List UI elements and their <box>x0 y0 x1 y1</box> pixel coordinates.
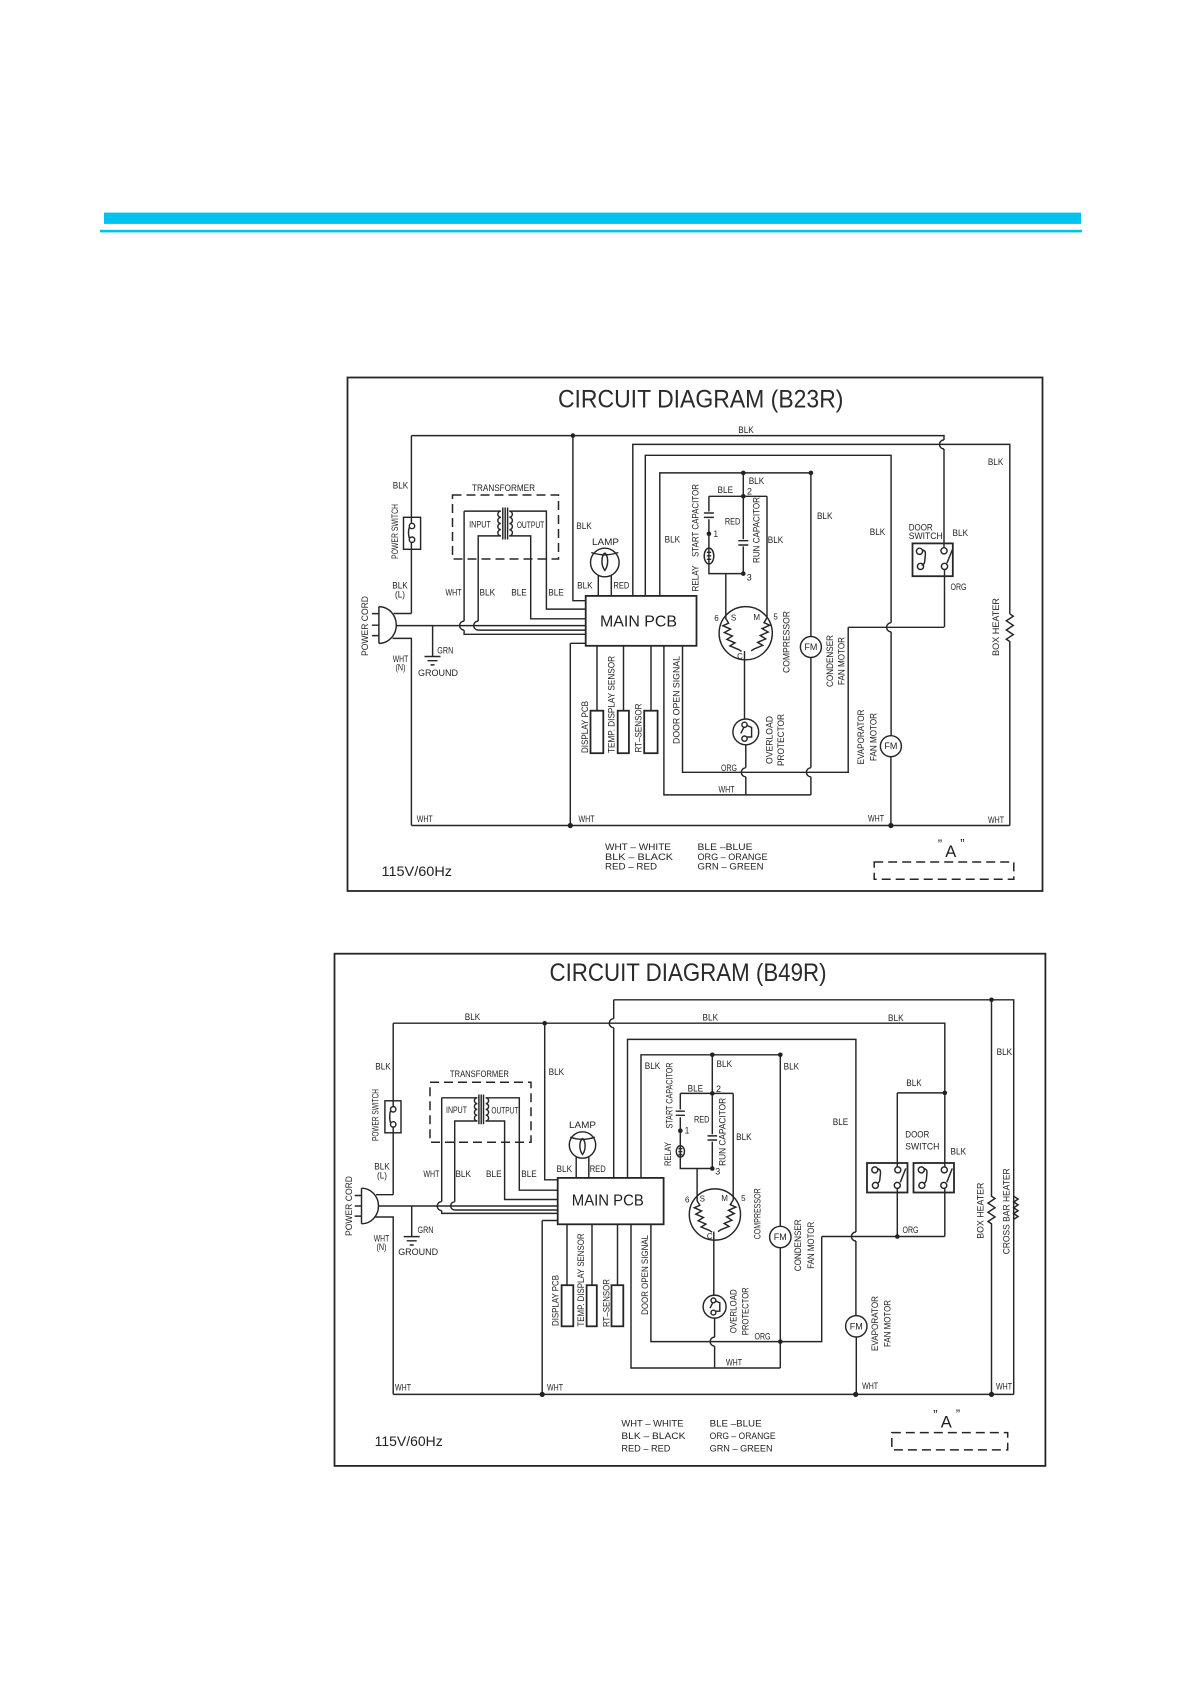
svg-text:BLK: BLK <box>906 1078 922 1089</box>
svg-text:BLK: BLK <box>703 1013 719 1024</box>
svg-text:WHT: WHT <box>547 1383 563 1394</box>
svg-text:FM: FM <box>804 642 817 652</box>
svg-text:WHT: WHT <box>719 784 735 795</box>
svg-text:ORG: ORG <box>951 582 967 593</box>
svg-text:POWER SWITCH: POWER SWITCH <box>371 1089 382 1141</box>
svg-text:115V/60Hz: 115V/60Hz <box>375 1434 443 1449</box>
svg-text:COMPRESSOR: COMPRESSOR <box>753 1188 764 1239</box>
svg-text:RT–SENSOR: RT–SENSOR <box>602 1279 613 1327</box>
svg-text:COMPRESSOR: COMPRESSOR <box>782 611 793 673</box>
svg-text:6: 6 <box>714 614 719 623</box>
svg-text:GRN – GREEN: GRN – GREEN <box>710 1444 773 1455</box>
svg-text:BLK: BLK <box>480 588 496 599</box>
svg-text:FAN MOTOR: FAN MOTOR <box>837 637 848 685</box>
svg-text:BLK: BLK <box>465 1012 481 1023</box>
svg-text:EVAPORATOR: EVAPORATOR <box>856 709 867 764</box>
svg-text:(L): (L) <box>377 1171 387 1182</box>
svg-text:RED: RED <box>590 1164 606 1175</box>
svg-text:”: ” <box>956 1407 960 1422</box>
svg-text:BLE: BLE <box>486 1169 502 1180</box>
svg-text:BOX HEATER: BOX HEATER <box>991 598 1002 656</box>
svg-text:BLK: BLK <box>557 1164 573 1175</box>
svg-text:”: ” <box>933 1407 937 1422</box>
svg-text:(N): (N) <box>377 1242 387 1253</box>
svg-text:CROSS BAR HEATER: CROSS BAR HEATER <box>1002 1168 1013 1254</box>
svg-text:WHT: WHT <box>395 1383 411 1394</box>
svg-text:BLK: BLK <box>997 1047 1013 1058</box>
svg-text:3: 3 <box>747 573 752 584</box>
svg-text:RELAY: RELAY <box>690 565 701 592</box>
svg-text:INPUT: INPUT <box>469 520 491 530</box>
svg-text:BLK: BLK <box>953 528 969 539</box>
svg-text:GRN: GRN <box>418 1225 434 1236</box>
svg-text:BLK: BLK <box>888 1013 904 1024</box>
svg-text:BLK: BLK <box>393 481 409 492</box>
svg-text:BOX HEATER: BOX HEATER <box>975 1183 986 1239</box>
svg-text:”: ” <box>960 836 964 851</box>
svg-text:MAIN PCB: MAIN PCB <box>572 1192 644 1209</box>
svg-text:PROTECTOR: PROTECTOR <box>776 714 787 766</box>
svg-text:ORG – ORANGE: ORG – ORANGE <box>710 1431 776 1442</box>
svg-text:A: A <box>941 1414 952 1432</box>
svg-text:START CAPACITOR: START CAPACITOR <box>665 1062 676 1128</box>
svg-text:WHT: WHT <box>726 1357 742 1368</box>
svg-text:FAN MOTOR: FAN MOTOR <box>806 1222 817 1269</box>
svg-text:2: 2 <box>716 1084 721 1095</box>
svg-text:CIRCUIT DIAGRAM (B49R): CIRCUIT DIAGRAM (B49R) <box>550 959 827 987</box>
svg-text:OUTPUT: OUTPUT <box>491 1106 518 1116</box>
svg-text:SWITCH: SWITCH <box>905 1142 939 1153</box>
svg-text:1: 1 <box>714 529 719 540</box>
svg-text:BLK – BLACK: BLK – BLACK <box>621 1431 686 1442</box>
svg-text:TRANSFORMER: TRANSFORMER <box>472 483 535 494</box>
svg-text:EVAPORATOR: EVAPORATOR <box>870 1296 881 1351</box>
svg-text:BLK: BLK <box>549 1067 565 1078</box>
svg-text:M: M <box>721 1194 728 1203</box>
svg-text:RED – RED: RED – RED <box>621 1444 670 1455</box>
svg-text:BLE: BLE <box>833 1117 849 1128</box>
svg-text:RED: RED <box>613 580 629 591</box>
svg-text:OVERLOAD: OVERLOAD <box>729 1289 740 1333</box>
svg-text:FAN MOTOR: FAN MOTOR <box>869 713 880 761</box>
svg-text:(L): (L) <box>395 590 405 601</box>
svg-text:5: 5 <box>773 613 778 622</box>
svg-text:BLK: BLK <box>738 425 754 436</box>
svg-text:BLK: BLK <box>817 511 833 522</box>
svg-text:BLK: BLK <box>870 527 886 538</box>
svg-text:LAMP: LAMP <box>569 1120 596 1131</box>
svg-text:DISPLAY PCB: DISPLAY PCB <box>580 701 591 753</box>
svg-text:BLK: BLK <box>576 521 592 532</box>
svg-text:SWITCH: SWITCH <box>909 531 943 542</box>
svg-text:BLK: BLK <box>455 1169 471 1180</box>
svg-text:BLK: BLK <box>665 535 681 546</box>
svg-text:OUTPUT: OUTPUT <box>517 520 545 530</box>
svg-text:CIRCUIT DIAGRAM (B23R): CIRCUIT DIAGRAM (B23R) <box>558 386 844 414</box>
svg-text:1: 1 <box>685 1126 690 1137</box>
svg-text:BLK: BLK <box>951 1146 967 1157</box>
svg-text:WHT: WHT <box>862 1381 878 1392</box>
svg-text:BLK: BLK <box>717 1059 733 1070</box>
svg-text:CONDENSER: CONDENSER <box>825 635 836 687</box>
svg-text:A: A <box>945 843 956 861</box>
svg-text:3: 3 <box>715 1167 720 1178</box>
svg-text:BLE: BLE <box>688 1084 704 1095</box>
svg-text:BLK: BLK <box>749 476 765 487</box>
svg-text:FM: FM <box>774 1232 787 1242</box>
svg-text:BLK: BLK <box>375 1061 391 1072</box>
svg-text:START CAPACITOR: START CAPACITOR <box>690 484 701 557</box>
svg-text:S: S <box>700 1195 705 1204</box>
svg-text:DISPLAY PCB: DISPLAY PCB <box>550 1275 561 1326</box>
svg-text:C: C <box>737 652 743 661</box>
svg-text:M: M <box>753 613 760 622</box>
svg-text:BLK: BLK <box>784 1061 800 1072</box>
svg-text:INPUT: INPUT <box>446 1105 467 1115</box>
svg-text:MAIN PCB: MAIN PCB <box>600 614 677 631</box>
svg-text:ORG: ORG <box>721 763 737 774</box>
svg-text:FM: FM <box>884 741 897 751</box>
svg-text:LAMP: LAMP <box>592 537 619 548</box>
svg-text:BLK: BLK <box>645 1061 661 1072</box>
svg-text:ORG: ORG <box>755 1332 771 1343</box>
svg-text:OVERLOAD: OVERLOAD <box>765 716 776 764</box>
svg-text:FAN MOTOR: FAN MOTOR <box>883 1300 894 1347</box>
svg-text:2: 2 <box>747 487 752 498</box>
svg-text:BLE: BLE <box>548 588 564 599</box>
svg-text:WHT: WHT <box>423 1169 439 1180</box>
svg-text:(N): (N) <box>396 662 406 673</box>
svg-text:GROUND: GROUND <box>398 1247 438 1258</box>
svg-text:BLE: BLE <box>521 1169 537 1180</box>
svg-text:BLK: BLK <box>736 1132 752 1143</box>
svg-text:WHT: WHT <box>417 814 433 825</box>
svg-text:POWER CORD: POWER CORD <box>360 596 371 656</box>
svg-text:BLK: BLK <box>577 580 593 591</box>
svg-text:6: 6 <box>685 1195 690 1204</box>
svg-text:ORG: ORG <box>903 1225 919 1236</box>
svg-text:RUN CAPACITOR: RUN CAPACITOR <box>717 1098 728 1166</box>
svg-text:”: ” <box>938 837 942 852</box>
svg-text:RT–SENSOR: RT–SENSOR <box>634 703 645 752</box>
svg-text:RED: RED <box>725 516 741 527</box>
svg-text:POWER SWITCH: POWER SWITCH <box>390 504 401 559</box>
svg-text:115V/60Hz: 115V/60Hz <box>382 864 453 879</box>
svg-text:FM: FM <box>850 1322 863 1332</box>
svg-text:TRANSFORMER: TRANSFORMER <box>450 1069 509 1080</box>
svg-text:DOOR: DOOR <box>905 1130 929 1141</box>
svg-text:BLE –BLUE: BLE –BLUE <box>710 1419 762 1430</box>
svg-text:PROTECTOR: PROTECTOR <box>741 1287 752 1335</box>
svg-text:RED – RED: RED – RED <box>605 862 657 873</box>
svg-text:BLK: BLK <box>988 457 1004 468</box>
svg-text:S: S <box>731 614 736 623</box>
svg-text:5: 5 <box>741 1194 746 1203</box>
svg-text:WHT: WHT <box>988 815 1004 826</box>
svg-text:WHT: WHT <box>446 588 462 599</box>
svg-text:GRN: GRN <box>437 645 453 656</box>
svg-text:WHT – WHITE: WHT – WHITE <box>621 1419 683 1430</box>
svg-text:BLE: BLE <box>511 588 527 599</box>
svg-text:TEMP. DISPLAY SENSOR: TEMP. DISPLAY SENSOR <box>576 1233 587 1326</box>
svg-text:RUN CAPACITOR: RUN CAPACITOR <box>751 497 762 563</box>
svg-text:CONDENSER: CONDENSER <box>793 1219 804 1271</box>
svg-text:WHT: WHT <box>996 1382 1012 1393</box>
svg-text:RED: RED <box>694 1114 710 1125</box>
svg-text:C: C <box>707 1232 713 1241</box>
svg-text:GRN – GREEN: GRN – GREEN <box>698 862 764 873</box>
svg-text:TEMP. DISPLAY SENSOR: TEMP. DISPLAY SENSOR <box>607 656 618 753</box>
svg-text:BLK: BLK <box>768 535 784 546</box>
svg-text:BLE: BLE <box>718 485 734 496</box>
svg-text:GROUND: GROUND <box>418 668 458 679</box>
svg-text:DOOR OPEN SIGNAL: DOOR OPEN SIGNAL <box>672 656 683 744</box>
svg-text:RELAY: RELAY <box>663 1141 674 1166</box>
svg-text:DOOR OPEN SIGNAL: DOOR OPEN SIGNAL <box>640 1235 651 1315</box>
svg-text:WHT: WHT <box>868 814 884 825</box>
svg-text:POWER CORD: POWER CORD <box>344 1176 355 1236</box>
svg-text:WHT: WHT <box>579 814 595 825</box>
